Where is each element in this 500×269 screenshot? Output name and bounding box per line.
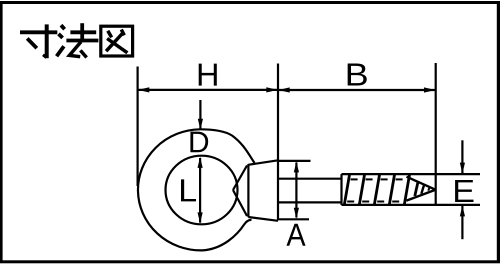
collar bottom edge bbox=[248, 217, 278, 221]
extension line left of H (tangent to eye) bbox=[137, 67, 139, 187]
D down arrow bbox=[198, 119, 203, 130]
E up arrow bbox=[460, 205, 465, 216]
label H bbox=[199, 64, 217, 86]
thread root dash top 1 bbox=[351, 178, 358, 180]
A down arrow bbox=[294, 208, 299, 219]
A extension line bottom bbox=[278, 218, 309, 220]
thread OD top line merging into E extension bbox=[342, 173, 481, 175]
L up arrow bbox=[198, 157, 203, 168]
thread crest 4 bbox=[389, 174, 394, 205]
label D bbox=[190, 132, 208, 153]
A extension line top bbox=[278, 160, 311, 162]
thread start left edge bbox=[340, 174, 342, 205]
collar top edge bbox=[248, 160, 278, 165]
label A bbox=[286, 224, 305, 246]
neck upper line bbox=[233, 166, 247, 191]
B dimension line bbox=[278, 89, 436, 91]
cone thread mark 1 bbox=[415, 181, 418, 196]
A up arrow bbox=[294, 161, 299, 172]
collar left edge bbox=[247, 164, 249, 217]
A dimension line bbox=[295, 163, 297, 218]
label E bbox=[455, 180, 473, 202]
thread root dash bottom 3 bbox=[377, 201, 384, 203]
frame left border bbox=[0, 1, 3, 262]
extension line between H and B / collar right edge bbox=[277, 64, 279, 221]
H dimension line bbox=[138, 89, 278, 91]
kanji HOU (法) bbox=[57, 23, 99, 57]
dimension letters as outlines bbox=[181, 63, 473, 245]
frame right border bbox=[497, 1, 500, 262]
cone thread mark 2 bbox=[421, 185, 424, 194]
eye outer profile bbox=[138, 129, 255, 250]
thread root dash top 2 bbox=[366, 178, 373, 180]
title 寸法図 drawn as strokes bbox=[20, 23, 133, 58]
H left arrow bbox=[138, 87, 150, 92]
shank bottom line bbox=[278, 201, 342, 203]
thread root dash bottom 1 bbox=[347, 201, 354, 203]
cone bottom edge bbox=[407, 190, 436, 201]
thread crest 2 bbox=[359, 174, 364, 205]
D arrow line bbox=[199, 100, 201, 129]
thread root dash top 4 bbox=[396, 178, 403, 180]
E down arrow bbox=[460, 163, 465, 174]
H right arrow bbox=[266, 87, 278, 92]
E arrow line upper bbox=[461, 140, 463, 173]
kanji SUN (寸) bbox=[20, 24, 57, 58]
B left arrow bbox=[278, 87, 290, 92]
thread crest 1 bbox=[344, 174, 349, 205]
thread root dash bottom 2 bbox=[362, 201, 369, 203]
label L bbox=[181, 179, 196, 201]
E arrow line lower bbox=[461, 206, 463, 239]
extension line right of B (at screw tip) bbox=[435, 63, 437, 206]
neck lower line bbox=[233, 190, 247, 216]
arrowheads bbox=[138, 87, 465, 223]
frame top border bbox=[0, 1, 500, 4]
cone thread mark 3 bbox=[428, 187, 430, 191]
thread crest 5 / cone base bbox=[404, 174, 409, 205]
frame bottom border bbox=[0, 260, 500, 263]
shank top line bbox=[278, 178, 342, 180]
thread OD bottom line merging into E extension bbox=[342, 204, 481, 206]
thread crest 3 bbox=[374, 174, 379, 205]
B right arrow bbox=[424, 87, 436, 92]
cone top edge bbox=[407, 177, 436, 190]
main drawing strokes bbox=[138, 63, 480, 250]
L dimension line bbox=[199, 158, 201, 223]
eye inner hole bbox=[166, 156, 238, 225]
kanji ZU (図) bbox=[101, 26, 133, 56]
thread root dash bottom 4 bbox=[392, 201, 399, 203]
label B bbox=[348, 63, 367, 85]
thread root dash top 3 bbox=[381, 178, 388, 180]
L down arrow bbox=[198, 212, 203, 223]
